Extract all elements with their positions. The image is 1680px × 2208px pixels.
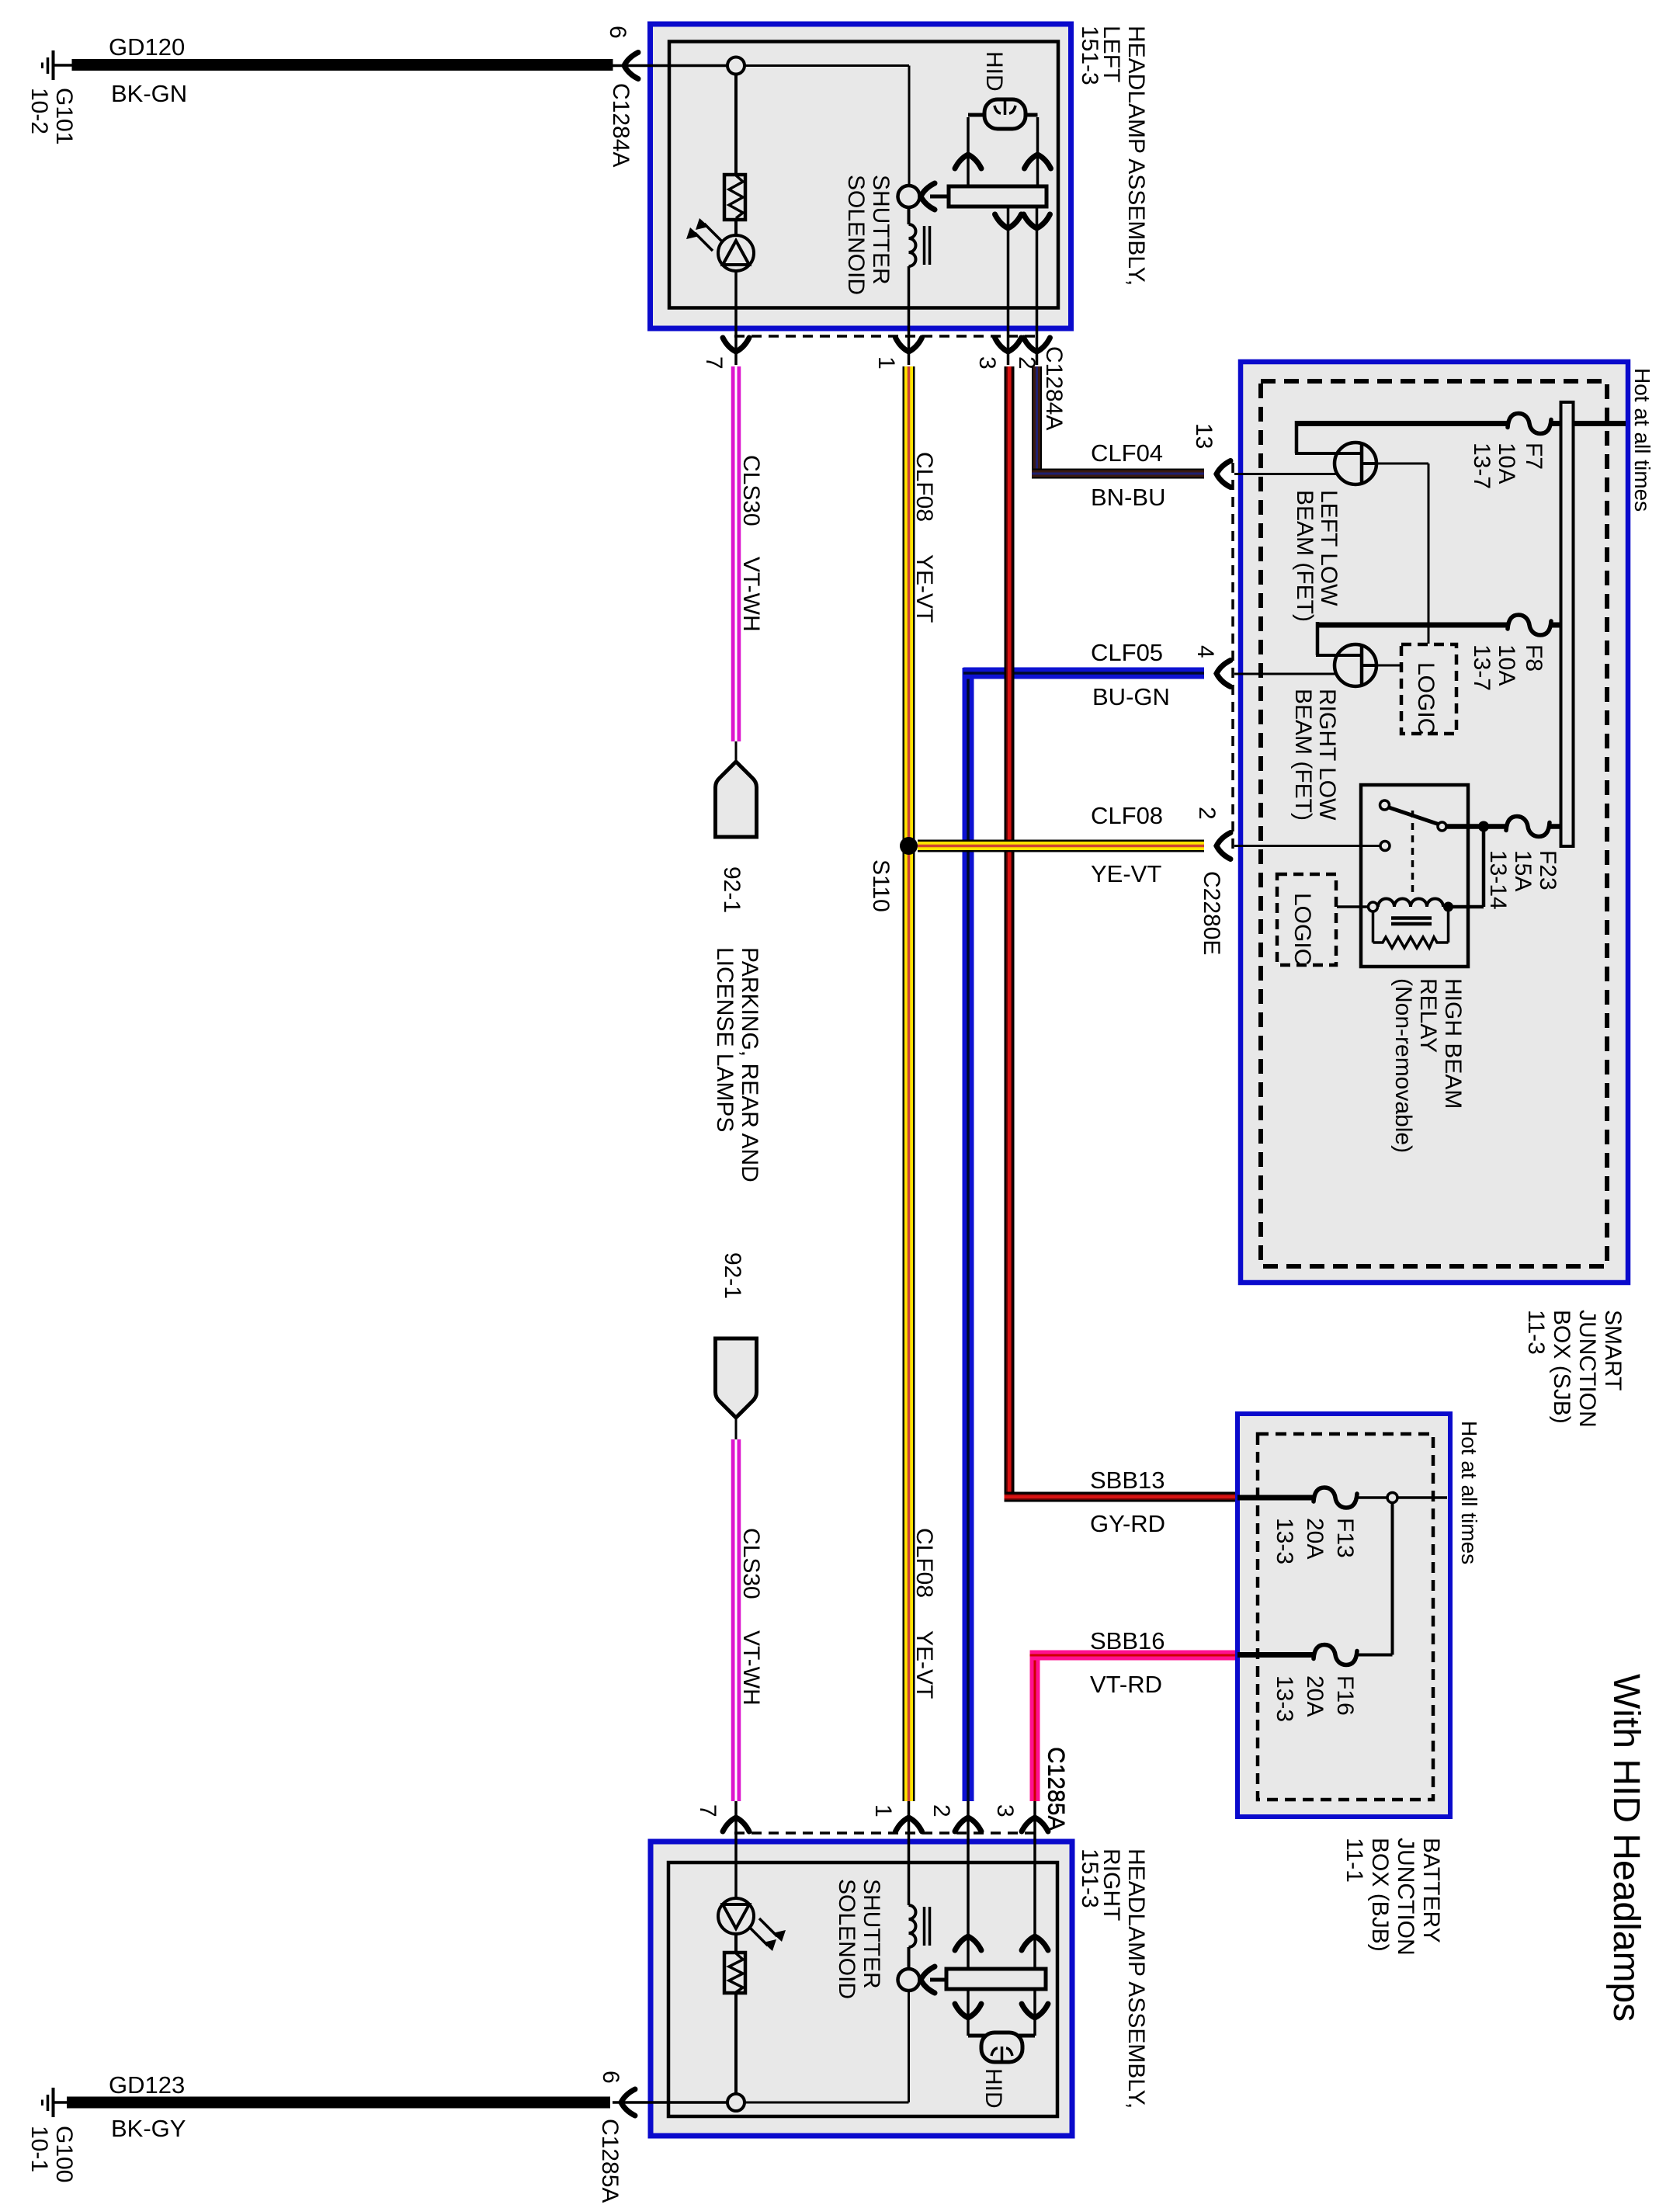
- svg-text:G100: G100: [51, 2126, 77, 2182]
- wire pin1 into solenoid right box: [908, 1801, 911, 1905]
- svg-text:13-7: 13-7: [1469, 443, 1494, 489]
- connector C1285A dashed line above right box: [734, 1831, 1037, 1835]
- headlamp assembly right - inner rect: [668, 1863, 1057, 2116]
- svg-text:F23: F23: [1535, 850, 1560, 890]
- svg-text:SHUTTER: SHUTTER: [859, 1879, 884, 1989]
- svg-text:With HID Headlamps: With HID Headlamps: [1605, 1674, 1647, 2022]
- shutter solenoid coil left box: [908, 207, 911, 224]
- relay suppression resistor loop: [1372, 911, 1375, 943]
- wire GD120 BK-GN (thick ground wire): [72, 59, 613, 71]
- fuse F8 wire: [1317, 623, 1508, 628]
- wire pin3 to ballast + arrow: [1033, 1801, 1036, 1969]
- arrow pin 6 right box: [621, 2089, 635, 2116]
- svg-text:13-14: 13-14: [1485, 850, 1511, 910]
- HID ballast rect right box: [946, 1969, 1046, 1989]
- svg-text:LOGIC: LOGIC: [1290, 893, 1315, 965]
- svg-text:3: 3: [992, 1804, 1018, 1817]
- ground G101: [52, 50, 55, 80]
- junction circle BJB: [1387, 1493, 1397, 1503]
- wire LED to resistor right box: [734, 1933, 738, 1953]
- svg-text:HEADLAMP ASSEMBLY,: HEADLAMP ASSEMBLY,: [1123, 26, 1149, 286]
- fuse F16 wire: [1237, 1652, 1314, 1658]
- svg-text:BK-GY: BK-GY: [111, 2115, 186, 2142]
- smart junction box SJB outer blue box: [1241, 362, 1628, 1283]
- svg-text:10A: 10A: [1494, 644, 1519, 686]
- svg-text:13-7: 13-7: [1469, 644, 1494, 691]
- svg-text:HID: HID: [981, 2068, 1006, 2109]
- wire CLS30 VT-WH lower segment: [731, 1439, 741, 1801]
- svg-text:151-3: 151-3: [1077, 1849, 1102, 1908]
- svg-text:RIGHT LOW: RIGHT LOW: [1314, 689, 1340, 821]
- svg-text:SBB13: SBB13: [1090, 1467, 1165, 1494]
- svg-text:SOLENOID: SOLENOID: [834, 1879, 859, 1999]
- wire FET2 output to pin 4: [1234, 673, 1337, 675]
- svg-text:10-2: 10-2: [26, 88, 52, 134]
- headlamp assembly left - outer blue box: [651, 24, 1071, 328]
- svg-text:SHUTTER: SHUTTER: [868, 175, 894, 285]
- svg-text:(Non-removable): (Non-removable): [1390, 978, 1416, 1153]
- shutter solenoid coil right box: [909, 1905, 916, 1947]
- svg-text:1: 1: [873, 356, 899, 370]
- wire to inline connector 92-1: [735, 741, 738, 763]
- shutter solenoid socket circle: [898, 186, 920, 207]
- wire CLS30 tail to right headlamp pin7: [735, 1801, 738, 1832]
- svg-text:JUNCTION: JUNCTION: [1393, 1838, 1418, 1956]
- svg-text:F8: F8: [1521, 644, 1546, 672]
- ballast output to pin 2 + arrow: [1036, 207, 1039, 365]
- wire resistor to LED: [734, 220, 738, 236]
- svg-text:F13: F13: [1332, 1518, 1358, 1558]
- pin exit arrows left box: [723, 338, 749, 352]
- FET right low beam driver: [1335, 644, 1376, 686]
- svg-text:Hot at all times: Hot at all times: [1457, 1421, 1481, 1564]
- svg-text:HEADLAMP ASSEMBLY,: HEADLAMP ASSEMBLY,: [1123, 1849, 1149, 2109]
- wire solenoid to pin 1: [908, 266, 911, 365]
- svg-text:C1285A: C1285A: [597, 2119, 623, 2203]
- LED indicator lamp left box: [718, 235, 754, 271]
- wire SBB16 VT-RD vertical: [1030, 1651, 1040, 1802]
- relay contact to F23 junction: [1446, 824, 1507, 829]
- svg-text:C1285A: C1285A: [1043, 1747, 1069, 1831]
- wire pin7 into LED right box: [734, 1801, 738, 1899]
- LOGIC box lower: [1277, 874, 1336, 965]
- svg-text:YE-VT: YE-VT: [911, 554, 937, 623]
- svg-text:S110: S110: [868, 859, 894, 912]
- svg-text:VT-WH: VT-WH: [738, 557, 764, 632]
- HID lamp right box: [981, 2033, 1022, 2062]
- HID lamp lead right right-box + arrow: [1033, 1989, 1036, 2036]
- svg-text:BATTERY: BATTERY: [1418, 1838, 1444, 1943]
- svg-text:RELAY: RELAY: [1415, 978, 1441, 1053]
- svg-text:LOGIC: LOGIC: [1413, 662, 1439, 734]
- resistor (shutter return) R in left box: [724, 175, 745, 220]
- battery junction box BJB outer blue box: [1237, 1414, 1450, 1817]
- HID lamp lead left + arrow: [967, 117, 970, 186]
- HID lamp bar right: [968, 2034, 1035, 2038]
- HID ballast rect left box: [949, 186, 1047, 207]
- svg-text:1: 1: [870, 1804, 896, 1817]
- HID lamp bar left: [968, 113, 1038, 117]
- svg-text:3: 3: [974, 356, 1000, 370]
- svg-text:LICENSE LAMPS: LICENSE LAMPS: [712, 947, 738, 1132]
- svg-text:GD120: GD120: [109, 33, 185, 61]
- arrow ballast to solenoid right box: [921, 1967, 935, 1993]
- svg-text:13: 13: [1191, 423, 1217, 449]
- relay junction down to coil: [1482, 827, 1486, 908]
- svg-text:VT-RD: VT-RD: [1090, 1671, 1162, 1698]
- svg-text:JUNCTION: JUNCTION: [1574, 1310, 1600, 1428]
- svg-text:92-1: 92-1: [719, 866, 745, 913]
- headlamp assembly right - outer blue box: [651, 1842, 1072, 2136]
- wire CLF08 YE-VT horizontal to SJB pin2: [918, 840, 1204, 852]
- svg-text:PARKING, REAR AND: PARKING, REAR AND: [737, 947, 762, 1182]
- svg-text:HID: HID: [981, 51, 1007, 92]
- arrow ballast to solenoid: [921, 183, 935, 210]
- svg-text:4: 4: [1192, 645, 1218, 658]
- svg-text:YE-VT: YE-VT: [1091, 860, 1161, 887]
- relay switch arm: [1389, 807, 1439, 825]
- svg-text:HIGH BEAM: HIGH BEAM: [1440, 978, 1466, 1109]
- top internal wire to solenoid branch: [745, 64, 909, 67]
- connector C2280E dashed line: [1231, 463, 1234, 854]
- wire connector to CLS30 lower: [735, 1418, 738, 1441]
- wire SBB13 GY-RD vertical: [1005, 366, 1015, 1502]
- svg-text:GD123: GD123: [109, 2071, 185, 2099]
- BJB inner dashed box: [1258, 1434, 1433, 1800]
- svg-text:BEAM (FET): BEAM (FET): [1292, 490, 1317, 622]
- socket circle pin6 left box: [727, 57, 745, 75]
- svg-text:SBB16: SBB16: [1090, 1627, 1165, 1654]
- svg-text:CLS30: CLS30: [738, 455, 764, 526]
- HID lamp lead right + arrow: [1036, 117, 1040, 186]
- wire CLS30 VT-WH upper segment: [731, 366, 741, 741]
- ground G100: [52, 2088, 55, 2117]
- headlamp assembly left - inner rect: [669, 42, 1058, 308]
- svg-text:2: 2: [1194, 807, 1220, 820]
- wire CLF05 BU-GN horizontal: [963, 668, 1204, 679]
- HID lamp left box: [984, 99, 1026, 129]
- FET left low beam driver: [1335, 443, 1376, 484]
- relay NO contact to pin2: [1380, 842, 1390, 851]
- wire GD123 BK-GY (thick ground wire): [67, 2097, 610, 2109]
- wire pin6 circle to resistor: [734, 75, 738, 175]
- svg-text:13-3: 13-3: [1272, 1518, 1297, 1564]
- svg-text:C2280E: C2280E: [1199, 871, 1224, 955]
- svg-text:7: 7: [695, 1804, 720, 1817]
- fuse F23: [1506, 817, 1550, 837]
- svg-text:92-1: 92-1: [720, 1252, 745, 1299]
- wire SBB16 VT-RD horizontal from BJB: [1030, 1651, 1238, 1661]
- svg-text:BOX (BJB): BOX (BJB): [1367, 1838, 1393, 1952]
- svg-text:CLF08: CLF08: [1091, 802, 1163, 829]
- inline connector 92-1 lower half: [716, 1338, 757, 1418]
- svg-text:CLF08: CLF08: [911, 452, 937, 522]
- svg-text:BN-BU: BN-BU: [1091, 484, 1165, 511]
- svg-text:11-1: 11-1: [1342, 1838, 1367, 1883]
- socket circle pin6 right box: [727, 2094, 745, 2111]
- svg-text:VT-WH: VT-WH: [738, 1630, 764, 1706]
- SJB inner dashed box: [1261, 381, 1607, 1266]
- fuse F13 wire: [1237, 1495, 1314, 1501]
- svg-text:10A: 10A: [1494, 443, 1519, 484]
- svg-text:SOLENOID: SOLENOID: [843, 175, 869, 295]
- svg-text:11-3: 11-3: [1523, 1310, 1549, 1355]
- power feed hot at all times top: [1574, 421, 1626, 426]
- svg-text:BOX (SJB): BOX (SJB): [1549, 1310, 1574, 1424]
- wire coil to LOGIC2: [1337, 905, 1369, 908]
- wire SBB13 GY-RD horizontal to BJB: [1005, 1492, 1238, 1502]
- svg-text:CLF08: CLF08: [911, 1528, 937, 1598]
- wire pin2 to ballast + arrow: [967, 1801, 970, 1969]
- LOGIC box upper: [1401, 644, 1456, 734]
- bottom internal wire: [745, 2102, 909, 2104]
- connector arrow pin 6 left headlamp: [624, 53, 638, 79]
- svg-text:CLS30: CLS30: [738, 1528, 764, 1599]
- wire CLF08 YE-VT vertical: [903, 366, 915, 1801]
- wire resistor to pin6 circle: [734, 1993, 738, 2094]
- high beam relay box: [1361, 785, 1468, 967]
- arrow pin 4: [1217, 661, 1230, 687]
- splice S110: [900, 837, 918, 855]
- wire CLF05 BU-GN vertical: [963, 668, 974, 1801]
- arrow pin 13: [1217, 461, 1230, 488]
- svg-text:LEFT LOW: LEFT LOW: [1316, 490, 1342, 606]
- svg-text:F16: F16: [1332, 1675, 1358, 1716]
- svg-text:BU-GN: BU-GN: [1092, 683, 1170, 710]
- svg-text:2: 2: [929, 1804, 954, 1817]
- relay mechanical link dashed: [1411, 811, 1414, 897]
- wire CLF04 BN-BU vertical: [1032, 366, 1042, 474]
- wire pin6 to box edge right box: [613, 2101, 727, 2104]
- svg-text:SMART: SMART: [1600, 1310, 1626, 1390]
- ballast output to pin 3 + arrow: [1007, 207, 1010, 365]
- svg-text:151-3: 151-3: [1077, 26, 1102, 85]
- svg-text:CLF05: CLF05: [1091, 639, 1163, 666]
- wire into headlamp left pin 6: [613, 64, 727, 68]
- shutter solenoid socket circle right box: [898, 1969, 920, 1991]
- wire F13 to F16 junction: [1391, 1503, 1394, 1655]
- svg-text:7: 7: [701, 356, 727, 370]
- relay moving contact: [1438, 822, 1446, 831]
- connector C1284A dashed line below left box: [734, 335, 1040, 338]
- relay common contact: [1380, 800, 1390, 810]
- svg-text:6: 6: [598, 2071, 623, 2084]
- svg-text:BEAM (FET): BEAM (FET): [1290, 689, 1316, 821]
- wire LED to pin 7: [734, 271, 738, 365]
- pin entry arrows right box: [723, 1817, 749, 1831]
- svg-text:C1284A: C1284A: [1041, 346, 1067, 430]
- svg-text:F7: F7: [1521, 443, 1546, 470]
- wire CLF04 BN-BU horizontal: [1032, 469, 1204, 479]
- arrow pin 2 SJB: [1217, 833, 1230, 859]
- svg-text:CLF04: CLF04: [1091, 439, 1163, 467]
- svg-text:G101: G101: [51, 88, 77, 144]
- fuse F7 wire: [1296, 421, 1508, 426]
- wire pin2 CLF08 into relay: [1234, 845, 1380, 847]
- svg-text:Hot at all times: Hot at all times: [1630, 368, 1654, 512]
- svg-text:10-1: 10-1: [26, 2126, 52, 2172]
- svg-text:15A: 15A: [1510, 850, 1536, 891]
- resistor right box: [724, 1953, 745, 1993]
- wire FET1 output to pin 13: [1234, 473, 1338, 475]
- svg-text:20A: 20A: [1302, 1518, 1328, 1559]
- svg-text:6: 6: [605, 26, 630, 39]
- svg-text:20A: 20A: [1302, 1675, 1328, 1717]
- HID lamp lead left right-box + arrow: [967, 1989, 970, 2036]
- svg-text:BK-GN: BK-GN: [111, 80, 187, 107]
- LED indicator lamp right box: [718, 1898, 754, 1934]
- relay coil: [1369, 902, 1378, 911]
- svg-text:13-3: 13-3: [1272, 1675, 1297, 1722]
- busbar in SJB: [1561, 402, 1574, 846]
- inline connector 92-1 upper half: [716, 762, 757, 837]
- svg-text:GY-RD: GY-RD: [1090, 1510, 1165, 1537]
- svg-text:C1284A: C1284A: [608, 83, 633, 167]
- svg-text:YE-VT: YE-VT: [911, 1630, 937, 1699]
